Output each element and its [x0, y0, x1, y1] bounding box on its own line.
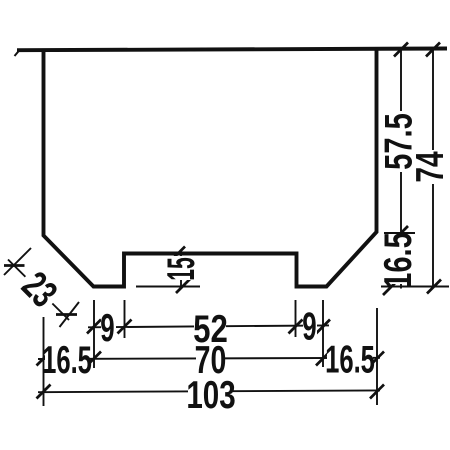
top line left end tail: [15, 50, 21, 57]
tick 74 bottom: [427, 280, 441, 294]
profile outline: [44, 49, 377, 287]
tick 15 bottom: [176, 279, 190, 293]
label 23 background: [18, 268, 60, 310]
tick 16.5 right bottom: [383, 281, 397, 295]
svg-text:16.5: 16.5: [325, 337, 375, 381]
extension line left edge bottom: [43, 317, 45, 406]
tick 9L right: [118, 320, 132, 334]
svg-text:103: 103: [186, 374, 235, 417]
extension line right step: [295, 300, 297, 337]
tick top 57.5: [394, 43, 408, 57]
tick 16.5L left: [37, 352, 51, 366]
tick 52 right: [289, 320, 303, 334]
dimension 23 line: [8, 260, 69, 321]
profile top surface line: [17, 49, 447, 51]
svg-text:15: 15: [159, 257, 203, 280]
tick 57.5 bottom: [394, 226, 408, 240]
svg-text:74: 74: [409, 151, 450, 182]
extension line bottom of 15: [136, 286, 200, 288]
extension line right bevel bottom: [322, 300, 324, 367]
tick top 74: [426, 43, 440, 57]
tick 16.5R right: [370, 352, 384, 366]
svg-text:9: 9: [100, 307, 114, 351]
tick 23 lower: [56, 313, 77, 316]
svg-text:16.5: 16.5: [42, 337, 92, 381]
tick 9R right: [316, 320, 330, 334]
tick 103 left: [37, 385, 51, 399]
extension line left step: [124, 300, 126, 338]
dimension line 74 vertical: [432, 50, 434, 289]
tick 9L left: [87, 320, 101, 334]
extension line bottom right: [381, 286, 449, 288]
dimension row 9 52 9: [88, 325, 329, 327]
svg-text:9: 9: [302, 305, 316, 349]
tick 103 right: [370, 385, 384, 399]
label backgrounds: [386, 111, 411, 172]
dimension row 16.5 70 16.5: [38, 358, 380, 359]
extension line at bevel start right: [384, 232, 415, 234]
tick 70 right: [316, 352, 330, 366]
svg-text:16.5: 16.5: [377, 232, 420, 289]
dimension line 57.5/16.5 vertical: [400, 50, 402, 289]
dimension 15 line: [180, 254, 182, 287]
dimension row 103: [38, 390, 380, 392]
extension line 23 upper: [4, 248, 31, 275]
extension line left bevel bottom: [93, 300, 95, 368]
tick 70 left: [87, 352, 101, 366]
tick 23 upper: [4, 264, 25, 267]
extension line right edge bottom: [376, 308, 378, 405]
tick 15 top: [171, 247, 185, 261]
extension line 23 lower: [60, 302, 80, 327]
